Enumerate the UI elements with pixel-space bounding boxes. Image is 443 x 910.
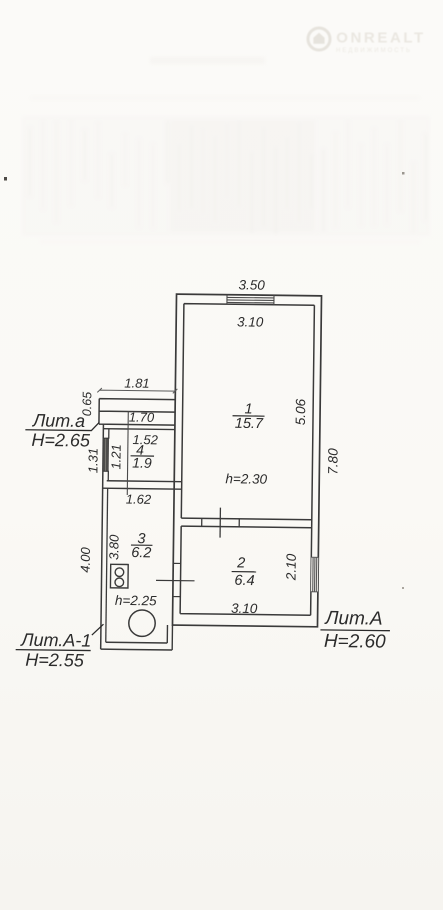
svg-text:3.10: 3.10 bbox=[231, 601, 258, 616]
paper specks bbox=[4, 177, 7, 181]
svg-text:1.62: 1.62 bbox=[126, 491, 152, 506]
main building outer wall bbox=[172, 294, 321, 627]
bleed-through ghost band bbox=[22, 57, 430, 244]
door leaf line room3/room2 bbox=[156, 579, 194, 581]
svg-text:3.50: 3.50 bbox=[238, 277, 265, 292]
porch (lit.a) outline bbox=[99, 399, 175, 425]
svg-text:1.21: 1.21 bbox=[108, 444, 123, 469]
svg-text:1.31: 1.31 bbox=[85, 448, 100, 473]
room 3 right wall lower segment bbox=[167, 625, 172, 650]
room 3 bottom wall bbox=[101, 642, 173, 650]
wall between room 4 and room 3 bbox=[103, 481, 182, 489]
svg-text:6.4: 6.4 bbox=[234, 573, 254, 589]
svg-text:1.81: 1.81 bbox=[124, 375, 149, 390]
svg-text:4.00: 4.00 bbox=[78, 546, 93, 572]
svg-text:Н=2.60: Н=2.60 bbox=[324, 631, 386, 653]
svg-text:6.2: 6.2 bbox=[131, 545, 151, 561]
svg-text:h=2.30: h=2.30 bbox=[225, 471, 267, 487]
svg-text:5.06: 5.06 bbox=[293, 398, 308, 425]
boiler circle room 3 bbox=[129, 610, 156, 637]
svg-text:h=2.25: h=2.25 bbox=[115, 593, 157, 609]
svg-text:2.10: 2.10 bbox=[284, 553, 299, 581]
svg-text:1.9: 1.9 bbox=[132, 455, 152, 471]
svg-text:3.10: 3.10 bbox=[237, 314, 264, 329]
svg-text:Лит.а: Лит.а bbox=[32, 410, 85, 431]
dimension line 1.81 bbox=[97, 388, 177, 393]
svg-text:ONREALT: ONREALT bbox=[336, 30, 426, 47]
main building inner wall bbox=[180, 304, 314, 616]
svg-text:3.80: 3.80 bbox=[106, 534, 121, 560]
window top (3.50 wall) bbox=[227, 295, 274, 305]
svg-text:7.80: 7.80 bbox=[325, 448, 340, 475]
room 4 inner left wall bbox=[107, 429, 110, 481]
watermark logo bbox=[308, 28, 426, 54]
svg-text:15.7: 15.7 bbox=[235, 416, 264, 432]
svg-text:1.70: 1.70 bbox=[129, 410, 155, 425]
window right (room 2, 2.10) bbox=[311, 557, 318, 592]
label lit.A-1 bbox=[15, 623, 103, 671]
room 4 top wall bbox=[103, 428, 174, 431]
door room3/room2 jamb ticks bbox=[173, 563, 181, 596]
svg-text:Лит.А: Лит.А bbox=[323, 608, 382, 630]
svg-text:Н=2.55: Н=2.55 bbox=[25, 650, 85, 671]
label lit.a bbox=[25, 410, 99, 450]
dimension extension line (1.52/1.62) bbox=[127, 411, 128, 494]
room 3 inner left wall bbox=[106, 488, 108, 642]
annex left outer wall bbox=[101, 424, 104, 649]
svg-text:Лит.А-1: Лит.А-1 bbox=[20, 630, 91, 651]
door leaf line room1/room2 bbox=[219, 508, 221, 538]
stove symbol room 3 bbox=[110, 564, 128, 588]
label lit.A bbox=[320, 608, 390, 653]
svg-text:2: 2 bbox=[236, 555, 245, 571]
wall between room 1 and room 2 bbox=[181, 518, 312, 528]
door jambs room1/room2 bbox=[202, 518, 240, 526]
svg-text:Н=2.65: Н=2.65 bbox=[31, 430, 91, 451]
window room 4 (dark bar) bbox=[103, 438, 109, 471]
svg-text:НЕДВИЖИМОСТЬ: НЕДВИЖИМОСТЬ bbox=[336, 48, 412, 54]
